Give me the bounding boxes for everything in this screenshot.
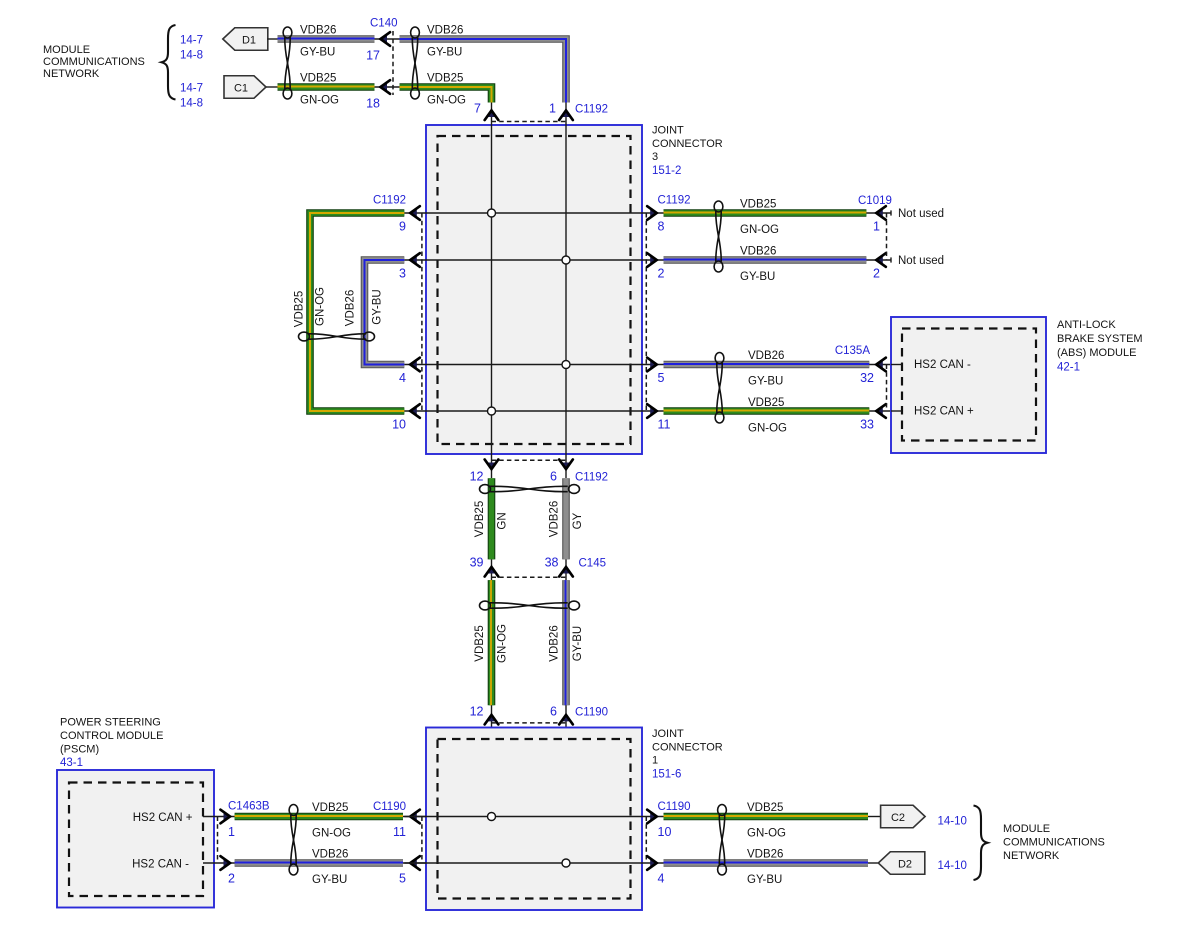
svg-text:JOINT: JOINT: [652, 125, 684, 137]
svg-text:ANTI-LOCK: ANTI-LOCK: [1057, 319, 1116, 331]
svg-text:11: 11: [658, 418, 671, 432]
joint connector 3 row line pins 9-8: [404, 212, 663, 214]
svg-text:COMMUNICATIONS: COMMUNICATIONS: [43, 56, 145, 68]
svg-text:14-7: 14-7: [180, 83, 203, 95]
connector C1192 left arrows pins 9 3 4 10: [410, 209, 417, 217]
power steering control module box: [57, 770, 214, 908]
svg-text:VDB25: VDB25: [748, 397, 784, 409]
twisted pair symbol (right of C140): [411, 27, 420, 38]
svg-text:9: 9: [399, 220, 406, 234]
wire stub into joint connector 1 left: [403, 816, 426, 818]
svg-text:14-8: 14-8: [180, 98, 203, 110]
svg-text:VDB25: VDB25: [300, 73, 336, 85]
wire stub to D2: [868, 862, 879, 864]
wire stub D1: [267, 38, 278, 40]
svg-text:CONNECTOR: CONNECTOR: [652, 138, 723, 150]
brace bottom-right: [974, 806, 988, 881]
svg-text:2: 2: [228, 872, 235, 886]
junction node pin7 column / row10: [488, 407, 496, 415]
svg-text:GY-BU: GY-BU: [740, 271, 775, 283]
joint connector 3 row line pins 10-11: [404, 410, 663, 412]
svg-text:C1192: C1192: [373, 195, 406, 207]
svg-text:GY-BU: GY-BU: [748, 376, 783, 388]
svg-text:C135A: C135A: [835, 345, 870, 357]
svg-text:VDB25: VDB25: [294, 291, 306, 327]
svg-text:38: 38: [545, 556, 559, 570]
svg-text:1: 1: [873, 220, 880, 234]
svg-text:BRAKE SYSTEM: BRAKE SYSTEM: [1057, 333, 1143, 345]
svg-text:CONTROL MODULE: CONTROL MODULE: [60, 730, 164, 742]
svg-text:JOINT: JOINT: [652, 728, 684, 740]
svg-text:151-6: 151-6: [652, 769, 681, 781]
twisted pair symbol (GN/GY pair): [480, 485, 491, 494]
connector C1190 right arrows pins 10 4: [650, 813, 657, 821]
svg-text:Not used: Not used: [898, 208, 944, 220]
wire VDB26 GY-BU (C140 to joint connector 3 pin 1): [400, 39, 567, 103]
connector C135A arrows and dashed line: [869, 364, 891, 366]
svg-text:18: 18: [366, 97, 380, 111]
connector C1190 left side dashed line: [421, 817, 423, 864]
svg-text:4: 4: [399, 371, 406, 385]
junction node pin6 column / row4: [562, 859, 570, 867]
connector C1190 right side dashed line: [645, 817, 647, 864]
wire VDB25 GN-OG (pin 8 to C1019 pin 1): [664, 209, 867, 217]
svg-text:43-1: 43-1: [60, 757, 83, 769]
svg-text:17: 17: [366, 49, 380, 63]
twisted pair symbol (PSCM pair): [289, 805, 298, 816]
svg-text:1: 1: [228, 825, 235, 839]
svg-text:10: 10: [392, 418, 406, 432]
svg-text:MODULE: MODULE: [1003, 823, 1050, 835]
svg-text:HS2 CAN +: HS2 CAN +: [133, 812, 193, 824]
joint connector 3 internal bus column pin7-12: [491, 103, 493, 479]
joint connector 3 row line pins 4-5: [404, 364, 663, 366]
connector C1190 top pins 12 and 6: [491, 705, 493, 816]
svg-text:C1019: C1019: [858, 195, 892, 207]
connector C1192 right side dashed line: [645, 213, 647, 411]
svg-text:C1192: C1192: [575, 472, 608, 484]
svg-text:3: 3: [399, 267, 406, 281]
twisted pair symbol (left of C140): [283, 27, 292, 38]
junction node pin1 column / row3: [562, 256, 570, 264]
svg-text:C1192: C1192: [575, 104, 608, 116]
svg-text:42-1: 42-1: [1057, 362, 1080, 374]
svg-text:VDB26: VDB26: [748, 350, 784, 362]
svg-text:1: 1: [549, 102, 556, 116]
svg-text:VDB26: VDB26: [549, 501, 561, 537]
svg-text:3: 3: [652, 151, 658, 163]
joint connector 3 row line pins 3-2: [404, 259, 663, 261]
wire VDB26 GY-BU loop (pin 3 to pin 4): [365, 260, 405, 365]
wire stub C1: [266, 86, 278, 88]
wire stub to C2: [868, 816, 881, 818]
connector C1190 left arrows pins 11 5: [410, 813, 417, 821]
in-line connector C145 pins 39 and 38: [491, 559, 493, 580]
svg-text:VDB26: VDB26: [740, 246, 776, 258]
svg-text:COMMUNICATIONS: COMMUNICATIONS: [1003, 837, 1105, 849]
svg-text:VDB25: VDB25: [740, 199, 776, 211]
connector arrow D1: [223, 28, 268, 51]
svg-text:GY-BU: GY-BU: [372, 289, 384, 324]
junction node pin1 column / row5: [562, 361, 570, 369]
twisted pair symbol (pins 8-2): [714, 201, 723, 212]
wire VDB25 GN-OG (pin 10 to C2): [664, 813, 869, 821]
connector C1463B stubs arrows dashed line: [203, 816, 236, 818]
connector C1192 top pins 7 and 1: [488, 111, 496, 118]
svg-text:2: 2: [658, 267, 665, 281]
svg-text:VDB26: VDB26: [747, 849, 783, 861]
svg-text:HS2 CAN -: HS2 CAN -: [914, 359, 971, 371]
joint connector 3 box: [426, 125, 642, 454]
connector arrow C1: [224, 76, 266, 99]
svg-text:VDB25: VDB25: [474, 501, 486, 537]
svg-text:GY: GY: [572, 512, 584, 529]
svg-text:GN-OG: GN-OG: [748, 423, 787, 435]
wire VDB26 GY-BU (pin 5 to ABS pin 32): [664, 361, 870, 369]
joint connector 1 row line pins 11-10: [404, 816, 663, 818]
anti-lock brake system module box: [891, 317, 1046, 453]
wire VDB25 GN-OG (C145 to joint connector 1 pin 12): [488, 580, 496, 705]
wire VDB26 GY (pin 6 to C145 pin 38): [562, 478, 570, 559]
svg-text:4: 4: [658, 872, 665, 886]
connector C1192 left side dashed line: [421, 213, 423, 411]
junction node pin7 column / row9: [488, 209, 496, 217]
svg-text:GN-OG: GN-OG: [747, 828, 786, 840]
twisted pair symbol (pins 5-11): [715, 353, 724, 364]
brace top-left: [162, 25, 176, 100]
svg-text:C145: C145: [579, 558, 607, 570]
svg-text:GY-BU: GY-BU: [427, 47, 462, 59]
svg-text:12: 12: [470, 705, 484, 719]
svg-text:(PSCM): (PSCM): [60, 744, 99, 756]
svg-text:HS2 CAN -: HS2 CAN -: [132, 859, 189, 871]
svg-text:14-10: 14-10: [938, 860, 967, 872]
svg-text:VDB26: VDB26: [549, 625, 561, 661]
svg-text:C2: C2: [891, 812, 905, 824]
twisted pair symbol (GN-OG/GY-BU vertical pair): [480, 601, 491, 610]
wire VDB25 GN-OG loop (pin 9 to pin 10): [310, 213, 404, 411]
svg-text:GY-BU: GY-BU: [300, 47, 335, 59]
connector C1192 right arrows pins 8 2 5 11: [650, 209, 657, 217]
svg-text:5: 5: [658, 371, 665, 385]
svg-text:8: 8: [658, 220, 665, 234]
svg-text:GN-OG: GN-OG: [740, 224, 779, 236]
svg-text:GY-BU: GY-BU: [747, 874, 782, 886]
svg-text:D1: D1: [242, 35, 256, 47]
twisted pair symbol (pins 10-4): [718, 805, 727, 816]
svg-text:GN-OG: GN-OG: [427, 95, 466, 107]
svg-text:11: 11: [393, 825, 406, 839]
svg-text:14-8: 14-8: [180, 50, 203, 62]
wire VDB25 GN-OG (pin 11 to ABS pin 33): [664, 407, 870, 415]
svg-text:VDB25: VDB25: [747, 802, 783, 814]
svg-text:151-2: 151-2: [652, 165, 681, 177]
svg-text:VDB26: VDB26: [345, 290, 357, 326]
wire VDB25 GN-OG (C140 to joint connector 3 pin 7): [400, 87, 492, 103]
wire VDB26 GY-BU (PSCM to joint connector 1 pin 5): [235, 859, 403, 867]
svg-text:POWER STEERING: POWER STEERING: [60, 717, 161, 729]
svg-text:GY-BU: GY-BU: [312, 874, 347, 886]
svg-text:C1190: C1190: [373, 801, 406, 813]
svg-text:GY-BU: GY-BU: [572, 626, 584, 661]
svg-text:CONNECTOR: CONNECTOR: [652, 741, 723, 753]
wire VDB25 GN (pin 12 to C145 pin 39): [488, 478, 496, 559]
svg-text:NETWORK: NETWORK: [43, 68, 100, 80]
svg-text:VDB26: VDB26: [300, 25, 336, 37]
svg-text:12: 12: [470, 470, 484, 484]
svg-text:39: 39: [470, 556, 484, 570]
svg-text:1: 1: [652, 755, 658, 767]
junction node pin12 column / row10: [488, 813, 496, 821]
svg-text:C1463B: C1463B: [228, 801, 270, 813]
svg-text:6: 6: [550, 470, 557, 484]
svg-text:C140: C140: [370, 18, 398, 30]
in-line connector C140: [375, 38, 400, 40]
svg-text:GN-OG: GN-OG: [497, 624, 509, 663]
svg-text:VDB25: VDB25: [474, 625, 486, 661]
connector arrow D2: [878, 852, 925, 875]
wire VDB25 GN-OG (C1 to C140): [278, 83, 375, 91]
svg-text:NETWORK: NETWORK: [1003, 850, 1060, 862]
svg-text:C1192: C1192: [658, 195, 691, 207]
svg-text:14-10: 14-10: [938, 816, 967, 828]
joint connector 3 internal bus column pin1-6: [565, 103, 567, 479]
svg-text:GN-OG: GN-OG: [315, 287, 327, 326]
svg-text:VDB26: VDB26: [312, 849, 348, 861]
svg-text:GN: GN: [497, 512, 509, 529]
wire VDB26 GY-BU (pin 2 to C1019 pin 2): [664, 256, 867, 264]
svg-text:(ABS) MODULE: (ABS) MODULE: [1057, 347, 1136, 359]
joint connector 1 row line pins 5-4: [404, 862, 663, 864]
svg-text:10: 10: [658, 825, 672, 839]
svg-text:7: 7: [474, 102, 481, 116]
twisted pair symbol (left loop): [299, 332, 310, 341]
svg-text:HS2 CAN +: HS2 CAN +: [914, 406, 974, 418]
svg-text:32: 32: [860, 371, 874, 385]
svg-text:Not used: Not used: [898, 255, 944, 267]
svg-text:C1: C1: [234, 83, 248, 95]
wire VDB26 GY-BU (C145 to joint connector 1 pin 6): [562, 580, 570, 705]
connector C1019 arrows and dashed line: [866, 212, 891, 214]
connector arrow C2: [881, 805, 926, 828]
joint connector 1 box: [426, 728, 642, 911]
wire VDB26 GY-BU (D1 to C140): [278, 35, 375, 43]
svg-text:14-7: 14-7: [180, 35, 203, 47]
svg-text:D2: D2: [898, 859, 912, 871]
svg-text:VDB25: VDB25: [427, 73, 463, 85]
svg-text:C1190: C1190: [575, 707, 608, 719]
svg-text:GN-OG: GN-OG: [312, 828, 351, 840]
svg-text:C1190: C1190: [658, 801, 691, 813]
svg-text:2: 2: [873, 267, 880, 281]
svg-text:6: 6: [550, 705, 557, 719]
svg-text:MODULE: MODULE: [43, 44, 90, 56]
svg-text:5: 5: [399, 872, 406, 886]
wire VDB25 GN-OG (PSCM to joint connector 1 pin 11): [235, 813, 403, 821]
svg-text:VDB25: VDB25: [312, 802, 348, 814]
svg-text:GN-OG: GN-OG: [300, 95, 339, 107]
connector C1192 bottom pins 12 and 6: [488, 463, 496, 470]
svg-text:VDB26: VDB26: [427, 25, 463, 37]
svg-text:33: 33: [860, 418, 874, 432]
wire VDB26 GY-BU (pin 4 to D2): [664, 859, 869, 867]
